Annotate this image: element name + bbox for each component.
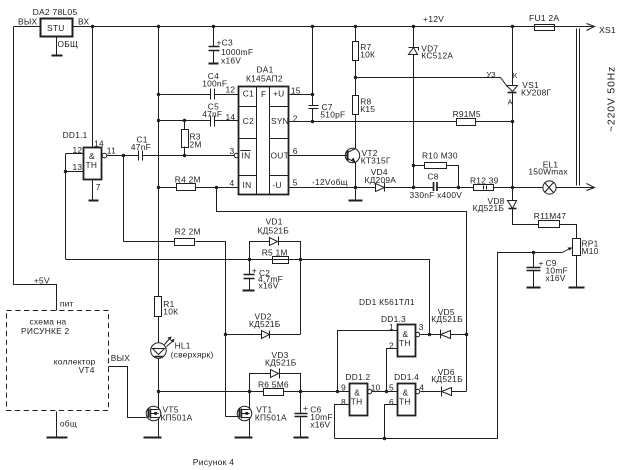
resistor R2 2M <box>175 239 195 246</box>
svg-text:7: 7 <box>96 182 101 192</box>
fuse FU1 2A <box>535 25 555 31</box>
label C3 <box>217 38 254 66</box>
svg-text:КД521Б: КД521Б <box>431 374 463 384</box>
resistor R6 5M6 <box>264 389 284 396</box>
gate DD1.4 <box>398 384 416 416</box>
diode VD6 KD521B <box>442 387 467 397</box>
svg-text:R5 1М: R5 1М <box>262 248 288 258</box>
node pin2/pin10/pin5 tie <box>385 390 388 393</box>
svg-text:2М: 2М <box>190 140 202 150</box>
wire DD1.1 pin11 to C1 <box>107 155 139 157</box>
ground RP1 bottom <box>576 256 578 288</box>
node VD5/VD6 column top <box>465 333 468 336</box>
wire VT5 drain <box>158 392 160 410</box>
wire loop pin4 node down and right to VD5/VD6 column <box>217 188 467 335</box>
svg-text:КД521Б: КД521Б <box>249 319 281 329</box>
svg-text:14: 14 <box>94 139 104 149</box>
svg-text:КП501А: КП501А <box>255 412 287 422</box>
svg-text:330nF x400V: 330nF x400V <box>410 190 463 200</box>
resistor R1 10K <box>155 297 162 317</box>
svg-text:x16V: x16V <box>546 273 566 283</box>
pin 10 bubble DD1.2 <box>367 389 372 394</box>
svg-text:510pF: 510pF <box>320 110 345 120</box>
svg-text:8: 8 <box>341 397 346 407</box>
DA1 pin numbers left <box>226 85 236 189</box>
gate DD1.1 <box>84 148 102 180</box>
node C4 tap <box>157 93 160 96</box>
svg-text:4: 4 <box>419 383 424 393</box>
svg-text:А: А <box>508 97 513 106</box>
label schema na RISUNKE 2 <box>21 316 70 336</box>
svg-text:М10: М10 <box>582 246 599 256</box>
capacitor C6 10mF <box>294 392 309 438</box>
node R4 right junction <box>215 186 218 189</box>
label VD5 KD521B <box>431 307 463 324</box>
node R3 bottom tap <box>183 154 186 157</box>
svg-text:-U: -U <box>273 180 282 190</box>
svg-text:DD1.1: DD1.1 <box>63 130 88 140</box>
arrow to XS1 top pin <box>587 24 595 31</box>
gate DD1.2 <box>350 384 368 416</box>
pin 11 inversion bubble DD1.1 <box>102 153 107 158</box>
wire DA2 input to top rail <box>73 26 594 28</box>
svg-text:КС512А: КС512А <box>421 51 453 61</box>
wire VT1 drain <box>249 392 251 410</box>
wire R11 to RP1 top <box>560 225 577 239</box>
node C7 bottom on SYN row <box>311 120 314 123</box>
node C1 junction x123.5 <box>122 154 125 157</box>
node LED/VT5 drain junction <box>157 390 160 393</box>
node R9/VS1 junction <box>511 120 514 123</box>
wire main row y391.5 <box>159 391 350 393</box>
svg-text:R12 39: R12 39 <box>470 175 499 185</box>
label VD2 KD521B <box>249 312 281 330</box>
svg-text:DD1 К561ТЛ1: DD1 К561ТЛ1 <box>359 297 415 307</box>
svg-text:+12V: +12V <box>423 14 444 24</box>
label amp TN DD1.2 <box>351 387 363 406</box>
svg-text:К145АП2: К145АП2 <box>246 74 283 84</box>
svg-text:x16V: x16V <box>259 281 279 291</box>
svg-text:ОБЩ: ОБЩ <box>58 39 79 49</box>
svg-text:DA2 78L05: DA2 78L05 <box>33 7 78 17</box>
svg-text:КД521Б: КД521Б <box>265 357 297 367</box>
svg-text:ВЫХ: ВЫХ <box>18 17 38 27</box>
wire DD1.1 pin12 <box>66 153 84 155</box>
label kollektor VT4 <box>54 356 96 375</box>
svg-text:КП501А: КП501А <box>161 412 193 422</box>
gate DD1.3 <box>398 325 416 357</box>
svg-text:10К: 10К <box>163 307 178 317</box>
wire VT2 collector up to R8 <box>355 115 357 149</box>
op-amp U DA1 K145AP2 box <box>239 87 289 195</box>
svg-text:КД521Б: КД521Б <box>431 314 463 324</box>
svg-text:КУ208Г: КУ208Г <box>521 87 552 97</box>
wire VD4 cathode to C8 <box>385 187 434 189</box>
capacitor C3 1000mF <box>209 27 220 64</box>
svg-text:14: 14 <box>226 112 236 122</box>
svg-text:12: 12 <box>73 145 83 155</box>
label amp TN DD1.4 <box>399 387 411 406</box>
svg-text:+: + <box>303 403 308 413</box>
resistor R4 2M <box>177 184 196 191</box>
transistor Q VT1 KP501A mosfet <box>237 406 252 421</box>
wire DD1.1 pin14 vertical <box>92 27 94 148</box>
resistor R5 1M <box>273 257 289 264</box>
label VS1 KU208G <box>521 80 552 97</box>
svg-text:13: 13 <box>73 162 83 172</box>
capacitor C7 510pF column <box>309 27 319 122</box>
node VD1/R5/C2 left junction <box>248 258 251 261</box>
svg-text:DD1.4: DD1.4 <box>394 372 419 382</box>
svg-text:ТН: ТН <box>86 160 98 170</box>
wire DD1.3 pin3 to VD5 <box>421 334 441 336</box>
resistor R9 1M5 <box>457 119 476 126</box>
capacitor C2 4.7mF <box>243 260 255 291</box>
wire VD7 column to rail <box>413 166 415 188</box>
svg-text:ВЫХ: ВЫХ <box>111 353 131 363</box>
node VD5 anode-side feedback tap <box>428 333 431 336</box>
label R8 K15 <box>360 97 375 115</box>
svg-text:5: 5 <box>389 383 394 393</box>
svg-text:x16V: x16V <box>221 56 241 66</box>
label VD1 KD521B <box>258 217 290 236</box>
ground DA2 common <box>56 37 58 56</box>
label EL1 150Wmax <box>528 160 568 177</box>
svg-text:6: 6 <box>389 397 394 407</box>
svg-text:(сверхярк): (сверхярк) <box>171 350 214 360</box>
wire R1 to LED <box>158 317 160 343</box>
node C5 tap <box>157 119 160 122</box>
wire DA1 pin4 row: R4 <box>159 187 239 189</box>
svg-text:47nF: 47nF <box>202 109 222 119</box>
pin 4 bubble DD1.4 <box>415 389 420 394</box>
svg-text:2: 2 <box>293 113 298 123</box>
svg-text:10: 10 <box>371 383 381 393</box>
svg-text:4: 4 <box>230 178 235 188</box>
svg-text:100nF: 100nF <box>202 79 227 89</box>
svg-text:FU1 2A: FU1 2A <box>529 13 559 23</box>
capacitor C9 10mF <box>527 253 541 288</box>
wire mains cable double line <box>577 29 580 186</box>
svg-text:C2: C2 <box>243 116 254 126</box>
transistor Q VT5 KP501A mosfet <box>146 406 161 421</box>
label VD3 KD521B <box>265 350 297 368</box>
label R7 10K <box>360 42 375 60</box>
wire DD1.4 pin6 <box>385 405 398 439</box>
node VD1/R5 right junction <box>299 258 302 261</box>
wire DA1 pin6 OUT to VT2 base <box>290 155 348 157</box>
wire VD2 column down from R5 right node <box>300 260 302 335</box>
resistor R7 10K <box>353 27 359 96</box>
wire DA1 pin5 -12V rail <box>290 187 376 189</box>
svg-text:3: 3 <box>419 322 424 332</box>
svg-text:+U: +U <box>273 89 284 99</box>
svg-text:+: + <box>252 265 257 275</box>
svg-text:150Wmax: 150Wmax <box>528 166 568 176</box>
diode VD7 KC512A zener <box>409 27 419 166</box>
svg-text:R10 М30: R10 М30 <box>422 151 458 161</box>
wire LED to drain node <box>158 359 160 392</box>
wire lamp to XS1 bottom pin <box>556 187 594 189</box>
capacitor C5 47nF with wires to DA1 pin14 <box>159 116 239 127</box>
svg-text:IN: IN <box>243 180 252 190</box>
wire left rail +5V down <box>14 27 57 311</box>
svg-text:6: 6 <box>293 146 298 156</box>
diode VD3 KD521B branch over R6 <box>250 369 301 392</box>
svg-text:XS1: XS1 <box>599 25 616 35</box>
capacitor C4 100nF with wires to DA1 pin12 <box>159 89 239 100</box>
label C4 <box>202 71 227 89</box>
svg-text:F: F <box>261 89 266 99</box>
svg-text:R6 5М6: R6 5М6 <box>258 379 289 389</box>
label amp TN DD1.1 <box>86 151 98 170</box>
LED HL1 sverkhyark <box>151 337 175 359</box>
resistor R8 K15 <box>353 96 359 115</box>
label VD7 KC512A <box>421 43 453 60</box>
svg-text:К: К <box>513 71 518 80</box>
svg-text:R91М5: R91М5 <box>453 109 481 119</box>
label VT2 KT315G <box>361 148 391 166</box>
ground VT1 source <box>249 418 251 438</box>
node top rail junction x313 <box>311 25 314 28</box>
transistor Q VT2 KT315G <box>345 148 359 162</box>
node gate wire tap <box>354 76 357 79</box>
node R4 tap <box>157 186 160 189</box>
svg-text:+5V: +5V <box>34 276 50 286</box>
node DD1.3 pin1 to pin9 <box>336 390 339 393</box>
svg-text:47nF: 47nF <box>131 142 151 152</box>
svg-text:SYN: SYN <box>271 116 289 126</box>
node pin6 bottom junction <box>383 437 386 440</box>
wire RP1 wiper feedback <box>335 253 563 439</box>
node pin13 junction <box>64 170 67 173</box>
svg-text:РИСУНКЕ 2: РИСУНКЕ 2 <box>21 326 70 336</box>
svg-text:R2 2М: R2 2М <box>175 227 201 237</box>
svg-text:схема на: схема на <box>30 316 67 326</box>
node VD3 left junction <box>248 390 251 393</box>
svg-text:R11М47: R11М47 <box>534 211 567 221</box>
wire DD1.4 pin4 to VD6 <box>421 391 441 393</box>
wire C1 to DA1 pin3 <box>143 155 235 157</box>
svg-text:1: 1 <box>389 322 394 332</box>
svg-text:ТН: ТН <box>351 396 363 406</box>
label C9 10mF <box>539 258 568 283</box>
node VD3 right / C6 junction <box>299 390 302 393</box>
wire DA1 pin2 SYN row to R9 <box>290 121 457 123</box>
svg-text:общ: общ <box>60 419 77 429</box>
label C5 <box>202 102 222 120</box>
svg-text:КТ315Г: КТ315Г <box>361 156 391 166</box>
overline on inverted IN <box>241 150 251 152</box>
wire feedback left vertical x65.8 <box>65 154 67 260</box>
ground DD1.1 pin7 <box>92 181 94 201</box>
svg-text:ТН: ТН <box>399 338 411 348</box>
wire vertical trunk x158.5 from top rail down to R1 <box>158 27 160 297</box>
wire VT5 gate from block output <box>109 367 147 418</box>
lamp EL1 150W <box>543 181 556 194</box>
svg-text:R4 2М: R4 2М <box>175 175 201 185</box>
label HL1 sverkhyark <box>171 340 214 359</box>
svg-text:STU: STU <box>47 23 65 33</box>
pin 3 bubble DD1.3 <box>415 332 420 337</box>
node top rail junction x158.5 <box>157 25 160 28</box>
svg-text:Рисунок 4: Рисунок 4 <box>193 457 234 467</box>
svg-text:C8: C8 <box>428 171 439 181</box>
svg-text:2: 2 <box>389 341 394 351</box>
block dashed schema na risunke 2 <box>7 311 109 411</box>
DA1 cell labels <box>242 89 289 190</box>
node C8/R10 right junction <box>457 186 460 189</box>
pin 3 inversion bubble DA1 <box>234 153 239 158</box>
wire DD1.3 pin2 <box>387 349 398 392</box>
node VD2 anode tap <box>224 333 227 336</box>
svg-text:ВХ: ВХ <box>78 17 89 27</box>
label R3 2M <box>190 132 202 150</box>
arrow to XS1 bottom pin <box>587 184 595 191</box>
wire DD1.3 pin1 <box>338 331 398 392</box>
node C9 tap <box>532 251 535 254</box>
resistor R12 39 <box>474 185 494 191</box>
diode VD5 KD521B <box>441 330 467 339</box>
label VT5 KP501A <box>161 405 193 423</box>
svg-text:x16V: x16V <box>310 419 330 429</box>
thyristor VS1 KU208G <box>507 27 518 188</box>
node top rail junction x355.6 <box>354 25 357 28</box>
node R3 top tap <box>183 119 186 122</box>
wire R12 to lamp <box>494 187 543 189</box>
node top rail junction x213.6 <box>212 25 215 28</box>
wire R2 right to VT1 gate column <box>196 242 226 417</box>
wire R2 branch from C1 node <box>124 156 175 242</box>
svg-text:5: 5 <box>293 178 298 188</box>
svg-text:УЗ: УЗ <box>487 70 497 79</box>
wire DD1.2 pin10 to DD1.4 pin5 <box>372 391 398 393</box>
svg-text:~220V 50Hz: ~220V 50Hz <box>606 66 618 132</box>
label C6 10mF <box>303 403 333 429</box>
diode VD4 KD209A <box>376 183 385 192</box>
wire feedback row y259.6 from DD1.1 pins to DD1.3 output <box>66 260 430 335</box>
svg-text:КД521Б: КД521Б <box>473 203 505 213</box>
resistor R11 M47 <box>539 221 560 228</box>
wire VD5/VD6 column <box>466 335 468 392</box>
node VD7 column rail tap <box>412 186 415 189</box>
svg-text:OUT: OUT <box>271 151 289 161</box>
label VD4 KD209A <box>365 167 397 185</box>
label VD6 KD521B <box>431 367 463 384</box>
ground block common <box>56 412 58 438</box>
resistor R3 2M <box>182 121 189 156</box>
diode VD1 KD521B branch <box>250 237 301 260</box>
DA1 pin numbers right <box>291 86 301 188</box>
wire VS1 gate from R7/R8 node <box>356 78 507 86</box>
voltage regulator DA2 78L05 <box>41 19 73 37</box>
diode VD8 KD521B <box>508 188 539 225</box>
wire C8 to R12 <box>437 187 474 189</box>
wire VT2 emitter down to rail <box>355 163 357 188</box>
svg-text:+: + <box>539 258 544 268</box>
svg-text:DD1.2: DD1.2 <box>345 372 370 382</box>
label VT1 KP501A <box>255 405 287 423</box>
ground VT2 emitter <box>355 188 357 201</box>
node top rail junction x92.6 <box>91 25 94 28</box>
node top rail junction x512 <box>511 25 514 28</box>
label C2 4.7mF <box>252 265 283 290</box>
wire DA1 pin15 to C7 column <box>290 94 313 96</box>
label C8 330nF <box>410 171 463 200</box>
potentiometer RP1 M10 <box>563 239 581 256</box>
svg-text:3: 3 <box>230 146 235 156</box>
svg-text:10К: 10К <box>360 50 375 60</box>
wire DD1.1 pin13 <box>66 171 84 173</box>
wire VT1 gate <box>226 416 238 418</box>
svg-text:15: 15 <box>291 86 301 96</box>
label RP1 M10 <box>582 239 599 256</box>
wire DD1.2 pin8 <box>335 405 350 439</box>
svg-text:9: 9 <box>341 383 346 393</box>
label C7 510pF <box>320 102 345 120</box>
svg-text:C1: C1 <box>243 89 254 99</box>
wire R9 to VS1 anode column <box>476 121 513 123</box>
svg-text:ТН: ТН <box>399 396 411 406</box>
capacitor C1 47nF <box>139 151 143 161</box>
svg-text:пит: пит <box>60 299 74 309</box>
resistor R10 M30 <box>414 163 459 188</box>
svg-text:-12Vобщ: -12Vобщ <box>312 177 348 187</box>
svg-text:К15: К15 <box>360 104 375 114</box>
svg-text:IN: IN <box>242 151 251 161</box>
node VS1 anode / rail junction <box>511 186 514 189</box>
wire DA2 output to left rail <box>14 26 41 28</box>
svg-text:+C3: +C3 <box>217 38 233 48</box>
label C1 47nF <box>131 134 151 152</box>
diode VD2 KD521B <box>226 331 301 339</box>
label VD8 KD521B <box>473 196 505 213</box>
svg-text:11: 11 <box>107 146 116 156</box>
capacitor C8 330nF <box>434 182 438 191</box>
ground VT5 source <box>158 418 160 438</box>
node VT2 emitter junction <box>354 186 357 189</box>
svg-text:КД209А: КД209А <box>365 175 397 185</box>
node top rail junction x413.3 <box>412 25 415 28</box>
label amp TN DD1.3 <box>399 329 411 348</box>
node VD7 column R10 tap <box>412 164 415 167</box>
label R1 10K <box>163 299 178 317</box>
label DA1 <box>246 65 283 84</box>
DA1 internal dividers <box>239 87 290 195</box>
node pin15/C7 <box>311 93 314 96</box>
svg-text:КД521Б: КД521Б <box>258 226 290 236</box>
svg-text:12: 12 <box>226 85 236 95</box>
svg-text:VT4: VT4 <box>79 365 95 375</box>
